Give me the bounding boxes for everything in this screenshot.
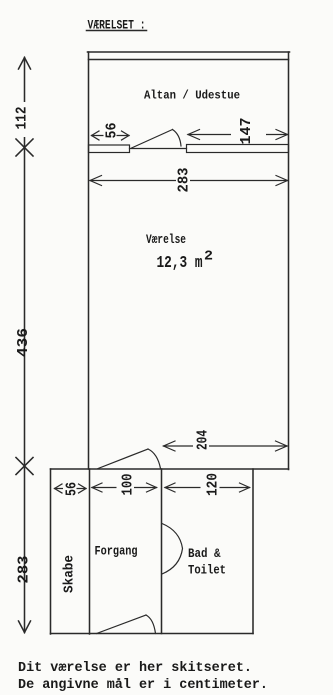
dim 204 [164,429,288,451]
dim 283 top [90,165,288,195]
dim 120 [165,473,250,498]
svg-text:283: 283 [16,556,33,584]
entry door swing [146,615,156,634]
door threshold [130,148,187,150]
hall wall right [252,469,254,634]
dim label 112 [13,102,31,137]
room label 12,3 m2 [157,250,214,273]
svg-text:120: 120 [205,473,222,496]
wall top outer [88,51,290,53]
svg-text:436: 436 [15,328,32,357]
svg-text:100: 100 [120,474,137,496]
svg-text:56: 56 [64,482,81,496]
svg-text:Skabe: Skabe [62,555,78,593]
svg-text:204: 204 [195,430,212,450]
title VÆRELSET [87,19,147,33]
entry door leaf [97,615,147,634]
svg-text:Toilet: Toilet [188,564,226,578]
dim 56 bottom [55,481,87,498]
bathroom door swing [162,524,183,575]
dim 147 [188,116,288,145]
svg-text:283: 283 [176,168,193,193]
balcony door swing [173,130,182,147]
wall top inner [89,59,289,61]
balcony door leaf [132,130,173,149]
hall wall bottom [51,633,254,635]
hall wall left [50,469,52,634]
wall skabe/forgang [89,469,91,634]
door to forgang swing [148,449,161,469]
window right [187,145,289,153]
dim 100 [92,473,157,498]
svg-text:Forgang: Forgang [95,545,138,559]
wall room bottom / hall top [51,468,289,470]
svg-text:Altan / Udestue: Altan / Udestue [144,89,240,103]
svg-text:147: 147 [238,118,255,145]
arrow up [19,58,31,70]
wall left [88,52,90,469]
wall forgang/bad [161,469,163,634]
svg-text:112: 112 [14,107,31,130]
svg-text:Bad &: Bad & [188,547,221,561]
svg-text:Dit værelse er her skitseret.: Dit værelse er her skitseret. [18,661,252,676]
svg-text:2: 2 [204,250,213,265]
X marker at balcony level [16,139,33,156]
svg-text:De angivne mål er i centimeter: De angivne mål er i centimeter. [18,678,268,693]
window left [89,145,130,153]
door to forgang leaf [98,449,148,469]
svg-text:56: 56 [104,123,121,139]
dim 56 top [92,119,130,140]
dim label 436 [15,328,32,357]
wall right [288,52,290,470]
left dimension line [24,58,26,633]
svg-text:12,3 m: 12,3 m [157,253,203,272]
svg-text:Værelse: Værelse [146,233,186,247]
arrow down [19,621,31,633]
dim label 283 left [16,556,33,584]
X marker at hall level [16,458,33,475]
